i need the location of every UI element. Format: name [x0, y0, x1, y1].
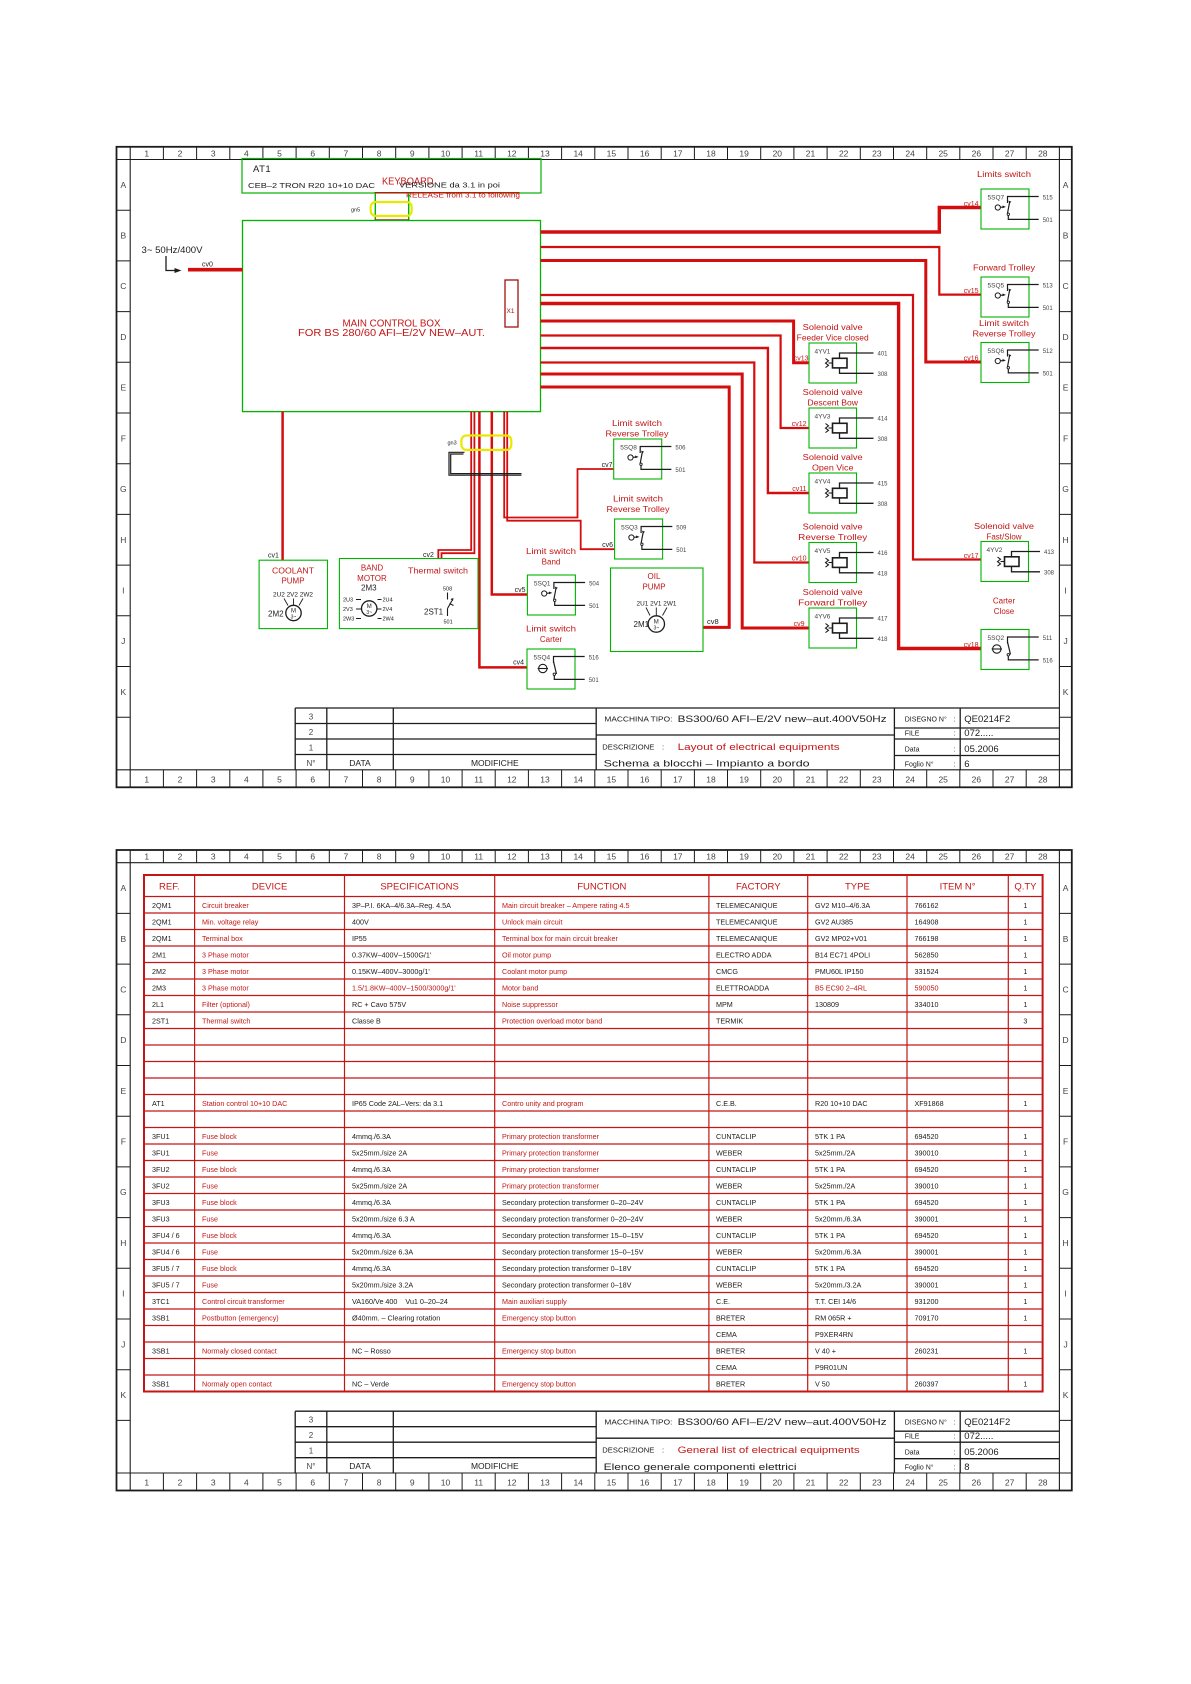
svg-text::: :: [954, 761, 956, 768]
svg-text:Solenoid valve: Solenoid valve: [803, 388, 864, 397]
svg-text:Solenoid valve: Solenoid valve: [803, 523, 864, 532]
svg-text:2U4: 2U4: [383, 598, 393, 604]
svg-text:N°: N°: [307, 759, 316, 768]
svg-text:cv6: cv6: [602, 542, 613, 549]
svg-text:X1: X1: [507, 308, 515, 315]
svg-text:V 40 +: V 40 +: [815, 1346, 836, 1355]
svg-text:6: 6: [964, 759, 969, 770]
svg-text:260397: 260397: [915, 1379, 939, 1388]
svg-text:Limit switch: Limit switch: [526, 547, 576, 556]
svg-text:508: 508: [443, 587, 452, 593]
svg-text:Limit switch: Limit switch: [613, 495, 663, 504]
svg-text:BAND: BAND: [361, 564, 383, 573]
svg-text:MODIFICHE: MODIFICHE: [471, 1461, 519, 1471]
svg-text:2QM1: 2QM1: [152, 917, 172, 926]
svg-text:3: 3: [1023, 1016, 1027, 1025]
svg-text:WEBER: WEBER: [716, 1280, 742, 1289]
svg-text:Reverse Trolley: Reverse Trolley: [798, 533, 867, 542]
svg-text:cv7: cv7: [602, 462, 613, 469]
svg-text:PUMP: PUMP: [642, 583, 665, 592]
svg-text:Motor band: Motor band: [502, 983, 538, 992]
svg-text:Fuse: Fuse: [202, 1181, 218, 1190]
svg-text:390001: 390001: [915, 1280, 939, 1289]
svg-text:Main circuit breaker – Ampere: Main circuit breaker – Ampere rating 4.5: [502, 901, 629, 910]
svg-text:1: 1: [1023, 1000, 1027, 1009]
svg-text:0.37KW–400V–1500G/1': 0.37KW–400V–1500G/1': [352, 950, 432, 959]
svg-text:DESCRIZIONE: DESCRIZIONE: [602, 1446, 654, 1455]
svg-text:501: 501: [589, 678, 600, 684]
svg-text:308: 308: [878, 437, 889, 443]
svg-text:Fuse: Fuse: [202, 1280, 218, 1289]
svg-text:5SQ4: 5SQ4: [534, 655, 551, 662]
svg-text:WEBER: WEBER: [716, 1214, 742, 1223]
svg-text:gn3: gn3: [448, 441, 457, 447]
svg-text:4mmq./6.3A: 4mmq./6.3A: [352, 1132, 391, 1141]
svg-text:CUNTACLIP: CUNTACLIP: [716, 1198, 756, 1207]
svg-text:Terminal box: Terminal box: [202, 934, 243, 943]
svg-text:RM 065R +: RM 065R +: [815, 1313, 852, 1322]
svg-text:V 50: V 50: [815, 1379, 830, 1388]
svg-text:AT1: AT1: [152, 1099, 165, 1108]
svg-text:4YV5: 4YV5: [815, 548, 831, 555]
svg-text:PUMP: PUMP: [281, 577, 304, 586]
svg-text:Oil motor pump: Oil motor pump: [502, 950, 551, 959]
svg-text:3FU4 / 6: 3FU4 / 6: [152, 1247, 180, 1256]
svg-text:Limits switch: Limits switch: [977, 170, 1031, 179]
svg-text:513: 513: [1043, 283, 1054, 289]
svg-text::: :: [954, 1434, 956, 1441]
svg-text:Station control 10+10 DAC: Station control 10+10 DAC: [202, 1099, 287, 1108]
svg-text:Fuse block: Fuse block: [202, 1132, 237, 1141]
svg-text:1: 1: [1023, 1379, 1027, 1388]
svg-text:5TK 1 PA: 5TK 1 PA: [815, 1264, 845, 1273]
svg-text:2M1: 2M1: [634, 620, 650, 629]
svg-text:1: 1: [1023, 1181, 1027, 1190]
svg-text:Reverse Trolley: Reverse Trolley: [607, 505, 670, 514]
svg-text:Emergency stop button: Emergency stop button: [502, 1346, 576, 1355]
svg-text:Emergency stop button: Emergency stop button: [502, 1313, 576, 1322]
svg-text:1: 1: [1023, 950, 1027, 959]
svg-text::: :: [954, 730, 956, 737]
svg-text:4YV6: 4YV6: [815, 614, 831, 621]
svg-text:5x25mm./size 2A: 5x25mm./size 2A: [352, 1148, 407, 1157]
svg-text:Descent Bow: Descent Bow: [807, 399, 858, 408]
svg-text:Feeder Vice closed: Feeder Vice closed: [797, 334, 869, 343]
svg-text:Foglio N°: Foglio N°: [905, 1464, 934, 1472]
svg-text:1: 1: [1023, 983, 1027, 992]
svg-text:Data: Data: [905, 1450, 920, 1457]
svg-text:IP55: IP55: [352, 934, 367, 943]
svg-text:418: 418: [878, 637, 889, 643]
svg-text:2M2: 2M2: [152, 967, 166, 976]
svg-text:05.2006: 05.2006: [964, 1447, 998, 1458]
svg-text:Primary protection transformer: Primary protection transformer: [502, 1165, 600, 1174]
svg-text:5SQ6: 5SQ6: [988, 348, 1005, 355]
svg-text:5TK 1 PA: 5TK 1 PA: [815, 1198, 845, 1207]
svg-text:Forward Trolley: Forward Trolley: [798, 599, 867, 608]
svg-text:BRETER: BRETER: [716, 1346, 745, 1355]
svg-text:512: 512: [1043, 349, 1054, 355]
svg-text:5SQ1: 5SQ1: [534, 581, 551, 588]
svg-text:XF91868: XF91868: [915, 1099, 944, 1108]
svg-text::: :: [954, 1450, 956, 1457]
svg-text:Secondary protection transform: Secondary protection transformer 0–20–24…: [502, 1214, 644, 1223]
svg-text:cv11: cv11: [792, 486, 806, 493]
svg-text:IP65 Code 2AL–Vers: da 3.1: IP65 Code 2AL–Vers: da 3.1: [352, 1099, 443, 1108]
svg-text:4YV1: 4YV1: [815, 349, 831, 356]
svg-text:BS300/60 AFI–E/2V new–aut.400V: BS300/60 AFI–E/2V new–aut.400V50Hz: [678, 714, 887, 725]
svg-text:ELETTROADDA: ELETTROADDA: [716, 983, 769, 992]
svg-text:cv4: cv4: [513, 660, 524, 667]
svg-text:5SQ2: 5SQ2: [988, 635, 1005, 642]
svg-text:516: 516: [589, 655, 600, 661]
svg-text::: :: [662, 742, 664, 751]
svg-text:GV2 AU385: GV2 AU385: [815, 917, 853, 926]
svg-text:1.5/1.8KW–400V–1500/3000g/1': 1.5/1.8KW–400V–1500/3000g/1': [352, 983, 456, 992]
wire cv7: [504, 412, 614, 518]
svg-text:Normaly open contact: Normaly open contact: [202, 1379, 272, 1388]
svg-text:130809: 130809: [815, 1000, 839, 1009]
svg-text:5SQ7: 5SQ7: [988, 195, 1005, 202]
svg-text::: :: [662, 1446, 664, 1455]
svg-text:5x25mm./2A: 5x25mm./2A: [815, 1181, 856, 1190]
svg-text:Fuse block: Fuse block: [202, 1264, 237, 1273]
svg-text:Schema a blocchi – Impianto a: Schema a blocchi – Impianto a bordo: [604, 759, 810, 770]
svg-text:Min. voltage relay: Min. voltage relay: [202, 917, 259, 926]
svg-text:2M3: 2M3: [152, 983, 166, 992]
control unit AT1: [242, 159, 541, 194]
svg-text:CUNTACLIP: CUNTACLIP: [716, 1264, 756, 1273]
svg-text:cv0: cv0: [202, 262, 213, 269]
oil pump 2M1: [611, 568, 704, 652]
svg-text:Secondary protection transform: Secondary protection transformer 0–18V: [502, 1264, 632, 1273]
svg-text:Band: Band: [542, 558, 561, 567]
svg-text:1: 1: [309, 1447, 314, 1456]
svg-text:3FU3: 3FU3: [152, 1198, 170, 1207]
svg-text:3: 3: [309, 1416, 314, 1425]
svg-text:Solenoid valve: Solenoid valve: [803, 453, 864, 462]
wire cv5: [492, 412, 528, 595]
svg-text::: :: [954, 1420, 956, 1427]
svg-text:QE0214F2: QE0214F2: [964, 1417, 1010, 1428]
svg-text:694520: 694520: [915, 1264, 939, 1273]
svg-text:5x20mm./size 6.3 A: 5x20mm./size 6.3 A: [352, 1214, 415, 1223]
svg-text:Terminal box for main circuit: Terminal box for main circuit breaker: [502, 934, 618, 943]
terminal strip X1: [505, 280, 518, 327]
svg-text:Classe B: Classe B: [352, 1016, 381, 1025]
svg-text:Carter: Carter: [993, 597, 1016, 606]
svg-text:Secondary protection transform: Secondary protection transformer 15–0–15…: [502, 1231, 644, 1240]
svg-text:TELEMECANIQUE: TELEMECANIQUE: [716, 901, 778, 910]
svg-text:MACCHINA TIPO:: MACCHINA TIPO:: [604, 716, 672, 723]
title block: [295, 708, 1059, 770]
svg-text:331524: 331524: [915, 967, 939, 976]
svg-text:694520: 694520: [915, 1231, 939, 1240]
svg-text:CMCG: CMCG: [716, 967, 738, 976]
svg-text:NC – Rosso: NC – Rosso: [352, 1346, 391, 1355]
svg-text:1: 1: [309, 744, 314, 753]
svg-text:308: 308: [878, 372, 889, 378]
svg-text:cv14: cv14: [964, 201, 979, 208]
svg-text:FILE: FILE: [905, 1434, 920, 1441]
main control box: [243, 221, 541, 412]
svg-text:5SQ8: 5SQ8: [620, 445, 637, 452]
svg-text:2M3: 2M3: [361, 584, 377, 593]
svg-text:5x20mm./6.3A: 5x20mm./6.3A: [815, 1247, 862, 1256]
svg-text:1: 1: [1023, 1346, 1027, 1355]
svg-text:418: 418: [878, 571, 889, 577]
svg-text:415: 415: [878, 482, 889, 488]
svg-text:Close: Close: [994, 607, 1015, 616]
svg-text:511: 511: [1043, 636, 1053, 642]
svg-text:3SB1: 3SB1: [152, 1379, 170, 1388]
svg-text:590050: 590050: [915, 983, 939, 992]
svg-text:Contro unity and program: Contro unity and program: [502, 1099, 584, 1108]
svg-text:Fuse block: Fuse block: [202, 1231, 237, 1240]
svg-text:gn5: gn5: [351, 208, 360, 214]
svg-text:260231: 260231: [915, 1346, 939, 1355]
svg-text:3TC1: 3TC1: [152, 1297, 170, 1306]
svg-text:501: 501: [1043, 218, 1054, 224]
svg-text:694520: 694520: [915, 1198, 939, 1207]
wire cv6: [507, 412, 614, 550]
svg-text:Emergency stop button: Emergency stop button: [502, 1379, 576, 1388]
svg-text:501: 501: [1043, 372, 1054, 378]
svg-text:DATA: DATA: [349, 1461, 371, 1471]
svg-text:766198: 766198: [915, 934, 939, 943]
svg-text:cv12: cv12: [792, 421, 807, 428]
svg-text:509: 509: [676, 525, 687, 531]
svg-text:390001: 390001: [915, 1214, 939, 1223]
svg-text:OIL: OIL: [648, 572, 661, 581]
svg-text:1: 1: [1023, 1231, 1027, 1240]
svg-text:Postbutton (emergency): Postbutton (emergency): [202, 1313, 279, 1322]
wire cv15: [541, 247, 982, 295]
svg-text:B14 EC71 4POLI: B14 EC71 4POLI: [815, 950, 870, 959]
svg-text:4YV3: 4YV3: [815, 414, 831, 421]
svg-text:Solenoid valve: Solenoid valve: [803, 588, 864, 597]
svg-text:cv17: cv17: [964, 553, 979, 560]
wire cv10: [541, 363, 810, 563]
svg-text:GV2 M10–4/6.3A: GV2 M10–4/6.3A: [815, 901, 870, 910]
svg-text:501: 501: [676, 548, 687, 554]
svg-text:Primary protection transformer: Primary protection transformer: [502, 1132, 600, 1141]
frame border: [117, 147, 1072, 788]
svg-text:1: 1: [1023, 1148, 1027, 1157]
svg-text:3SB1: 3SB1: [152, 1313, 170, 1322]
svg-text:2U1 2V1 2W1: 2U1 2V1 2W1: [637, 602, 678, 608]
svg-text:Foglio N°: Foglio N°: [905, 760, 934, 768]
svg-text:1: 1: [1023, 1132, 1027, 1141]
svg-text:501: 501: [675, 468, 686, 474]
svg-text:1: 1: [1023, 1214, 1027, 1223]
svg-text:3~: 3~: [366, 610, 372, 616]
svg-text:390010: 390010: [915, 1181, 939, 1190]
svg-text:Secondary protection transform: Secondary protection transformer 15–0–15…: [502, 1247, 644, 1256]
svg-text:1: 1: [1023, 1198, 1027, 1207]
svg-text:Open Vice: Open Vice: [812, 464, 854, 473]
band motor 2M3: [339, 559, 478, 629]
svg-text:562850: 562850: [915, 950, 939, 959]
svg-text:R20 10+10 DAC: R20 10+10 DAC: [815, 1099, 868, 1108]
svg-text:Unlock main circuit: Unlock main circuit: [502, 917, 562, 926]
svg-text:1: 1: [1023, 917, 1027, 926]
wire cv2 (pair): [438, 412, 471, 559]
svg-text:GV2 MP02+V01: GV2 MP02+V01: [815, 934, 867, 943]
svg-text:RC + Cavo 575V: RC + Cavo 575V: [352, 1000, 406, 1009]
svg-text:1: 1: [1023, 1247, 1027, 1256]
svg-text:ELECTRO ADDA: ELECTRO ADDA: [716, 950, 772, 959]
svg-text:QE0214F2: QE0214F2: [964, 714, 1010, 725]
svg-text:Fast/Slow: Fast/Slow: [986, 533, 1021, 542]
svg-text:5SQ5: 5SQ5: [988, 283, 1005, 290]
svg-text:Fuse: Fuse: [202, 1247, 218, 1256]
svg-text:3~: 3~: [291, 615, 297, 621]
svg-text:3 Phase motor: 3 Phase motor: [202, 967, 249, 976]
svg-text:cv5: cv5: [515, 587, 526, 594]
svg-text:694520: 694520: [915, 1165, 939, 1174]
svg-text:Protection overload motor band: Protection overload motor band: [502, 1016, 602, 1025]
svg-text:3~ 50Hz/400V: 3~ 50Hz/400V: [142, 245, 204, 256]
svg-text:FILE: FILE: [905, 730, 920, 737]
svg-text:WEBER: WEBER: [716, 1148, 742, 1157]
svg-text:390010: 390010: [915, 1148, 939, 1157]
svg-text:3~: 3~: [653, 626, 659, 632]
svg-text:MOTOR: MOTOR: [357, 574, 387, 583]
svg-text:766162: 766162: [915, 901, 939, 910]
svg-text:Forward Trolley: Forward Trolley: [973, 264, 1035, 273]
svg-text:4YV4: 4YV4: [815, 479, 831, 486]
wire cv13: [541, 321, 810, 363]
svg-text:5x25mm./size 2A: 5x25mm./size 2A: [352, 1181, 407, 1190]
svg-text:414: 414: [878, 417, 889, 423]
svg-text:5x20mm./size 6.3A: 5x20mm./size 6.3A: [352, 1247, 413, 1256]
svg-text:2ST1: 2ST1: [152, 1016, 169, 1025]
svg-text:501: 501: [1043, 306, 1054, 312]
svg-text:3 Phase motor: 3 Phase motor: [202, 983, 249, 992]
wire cv12: [541, 336, 810, 429]
svg-text:BRETER: BRETER: [716, 1379, 745, 1388]
svg-text:DATA: DATA: [349, 758, 371, 768]
svg-text:3FU2: 3FU2: [152, 1181, 170, 1190]
svg-text:401: 401: [878, 352, 889, 358]
title block: [295, 1411, 1059, 1473]
svg-text:BRETER: BRETER: [716, 1313, 745, 1322]
svg-text:NC – Verde: NC – Verde: [352, 1379, 389, 1388]
svg-text:TELEMECANIQUE: TELEMECANIQUE: [716, 917, 778, 926]
svg-text:VERSIONE da 3.1 in poi: VERSIONE da 3.1 in poi: [399, 181, 500, 190]
svg-text:400V: 400V: [352, 917, 369, 926]
svg-text:5x20mm./6.3A: 5x20mm./6.3A: [815, 1214, 862, 1223]
svg-text:CUNTACLIP: CUNTACLIP: [716, 1132, 756, 1141]
svg-text:BS300/60 AFI–E/2V new–aut.400V: BS300/60 AFI–E/2V new–aut.400V50Hz: [678, 1417, 887, 1428]
svg-text:931200: 931200: [915, 1297, 939, 1306]
svg-text:515: 515: [1043, 195, 1054, 201]
svg-text:1: 1: [1023, 1165, 1027, 1174]
svg-text:2ST1: 2ST1: [424, 608, 444, 617]
wire cv16: [541, 261, 982, 363]
svg-text:Primary protection transformer: Primary protection transformer: [502, 1181, 600, 1190]
svg-text:Solenoid valve: Solenoid valve: [974, 522, 1035, 531]
svg-text:Ø40mm. – Clearing rotation: Ø40mm. – Clearing rotation: [352, 1313, 440, 1322]
svg-text:308: 308: [878, 502, 889, 508]
svg-text:Circuit breaker: Circuit breaker: [202, 901, 249, 910]
svg-text:CEMA: CEMA: [716, 1330, 737, 1339]
svg-text:2V3: 2V3: [343, 607, 353, 613]
svg-text:4YV2: 4YV2: [987, 547, 1003, 554]
svg-text:Filter (optional): Filter (optional): [202, 1000, 250, 1009]
svg-text:501: 501: [444, 620, 453, 626]
svg-text:T.T. CEI 14/6: T.T. CEI 14/6: [815, 1297, 856, 1306]
svg-text:cv18: cv18: [964, 642, 979, 649]
svg-text:416: 416: [878, 551, 889, 557]
wire cv18: [541, 304, 982, 649]
svg-text:072.....: 072.....: [964, 728, 993, 739]
svg-text:5TK 1 PA: 5TK 1 PA: [815, 1231, 845, 1240]
svg-text:390001: 390001: [915, 1247, 939, 1256]
svg-text:2: 2: [309, 728, 314, 737]
svg-text::: :: [954, 716, 956, 723]
svg-text::: :: [954, 746, 956, 753]
svg-text:5TK 1 PA: 5TK 1 PA: [815, 1165, 845, 1174]
svg-text:334010: 334010: [915, 1000, 939, 1009]
svg-text:Thermal switch: Thermal switch: [202, 1016, 250, 1025]
svg-text:0.15KW–400V–3000g/1': 0.15KW–400V–3000g/1': [352, 967, 430, 976]
svg-text:413: 413: [1044, 550, 1055, 556]
wire cv1: [281, 412, 284, 561]
svg-text:2L1: 2L1: [152, 1000, 164, 1009]
svg-text:cv15: cv15: [964, 288, 979, 295]
svg-text:2V4: 2V4: [383, 607, 393, 613]
svg-text:Data: Data: [905, 746, 920, 753]
svg-text:1: 1: [1023, 1099, 1027, 1108]
svg-text:4mmq./6.3A: 4mmq./6.3A: [352, 1264, 391, 1273]
svg-text:3FU3: 3FU3: [152, 1214, 170, 1223]
svg-text:WEBER: WEBER: [716, 1247, 742, 1256]
svg-text:CUNTACLIP: CUNTACLIP: [716, 1165, 756, 1174]
svg-text:504: 504: [589, 581, 600, 587]
svg-text:4mmq./6.3A: 4mmq./6.3A: [352, 1231, 391, 1240]
node gr5 cable channel: [374, 193, 376, 221]
svg-text:Fuse block: Fuse block: [202, 1198, 237, 1207]
svg-text:3FU5 / 7: 3FU5 / 7: [152, 1280, 180, 1289]
parts table grid: [144, 875, 1043, 1392]
svg-text:CEB–2 TRON R20 10+10 DAC: CEB–2 TRON R20 10+10 DAC: [248, 181, 376, 190]
svg-text:3SB1: 3SB1: [152, 1346, 170, 1355]
svg-text:C.E.: C.E.: [716, 1297, 730, 1306]
svg-text:Layout of electrical equipment: Layout of electrical equipments: [678, 742, 840, 753]
ground drain wire (black hook): [449, 452, 522, 475]
svg-text:Primary protection transformer: Primary protection transformer: [502, 1148, 600, 1157]
svg-text:VA160/Ve 400 Vu1 0–20–24: VA160/Ve 400 Vu1 0–20–24: [352, 1297, 448, 1306]
svg-text:PMU60L IP150: PMU60L IP150: [815, 967, 863, 976]
svg-text:506: 506: [675, 445, 686, 451]
wire cv14: [541, 208, 982, 233]
svg-text:Reverse Trolley: Reverse Trolley: [606, 430, 669, 439]
svg-text:TERMIK: TERMIK: [716, 1016, 743, 1025]
wire cv9: [541, 374, 810, 628]
svg-text:cv10: cv10: [792, 556, 807, 563]
svg-text:4mmq./6.3A: 4mmq./6.3A: [352, 1198, 391, 1207]
svg-text:TELEMECANIQUE: TELEMECANIQUE: [716, 934, 778, 943]
svg-text:Limit switch: Limit switch: [612, 419, 662, 428]
svg-text:CEMA: CEMA: [716, 1363, 737, 1372]
svg-text:2QM1: 2QM1: [152, 901, 172, 910]
node gn3 cable channel: [461, 436, 511, 450]
svg-text:3P–P.I. 6KA–4/6.3A–Reg. 4.5A: 3P–P.I. 6KA–4/6.3A–Reg. 4.5A: [352, 901, 451, 910]
svg-text:B5 EC90 2–4RL: B5 EC90 2–4RL: [815, 983, 867, 992]
svg-text:WEBER: WEBER: [716, 1181, 742, 1190]
